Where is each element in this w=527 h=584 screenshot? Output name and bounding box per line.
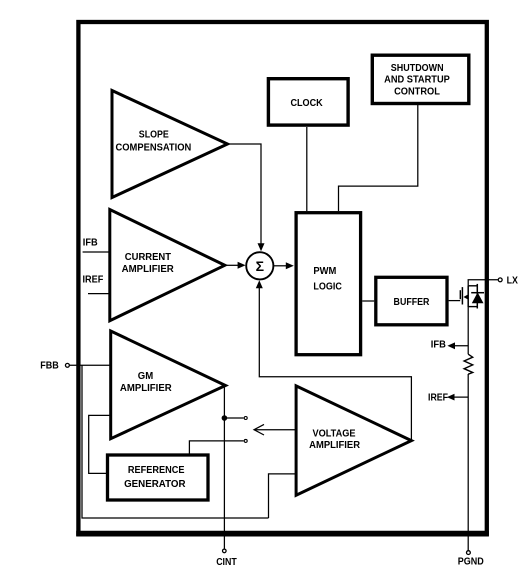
svg-text:FBB: FBB: [40, 361, 59, 372]
wire buffer to MOSFET gate: [449, 300, 461, 302]
wire gm amplifier lower input to reference generator: [89, 415, 111, 473]
wire voltage amplifier output to summer bottom: [259, 288, 411, 441]
svg-text:CURRENT: CURRENT: [125, 252, 172, 263]
svg-text:BUFFER: BUFFER: [394, 297, 430, 308]
switch wiper arrow from voltage amplifier input: [254, 424, 296, 435]
MOSFET Q1 (output switch): [460, 285, 477, 307]
wire gm amplifier output down to CINT: [223, 386, 225, 549]
arrowhead into summer bottom: [256, 280, 263, 288]
wire FBB down along border to bottom rail: [82, 365, 269, 518]
svg-text:CLOCK: CLOCK: [290, 98, 323, 109]
wire current amplifier output to summer: [225, 264, 239, 266]
wire summer to PWM logic: [273, 265, 286, 267]
arrowhead into PWM logic: [286, 262, 294, 269]
CINT terminal: [223, 549, 227, 553]
svg-text:Σ: Σ: [256, 258, 264, 274]
slope compensation amplifier: [112, 91, 228, 198]
wire reference generator to switch contact B: [189, 441, 243, 455]
svg-text:GENERATOR: GENERATOR: [124, 479, 186, 490]
svg-text:PWM: PWM: [313, 266, 336, 277]
svg-text:IFB: IFB: [431, 339, 446, 350]
LX terminal: [498, 278, 502, 282]
svg-text:IREF: IREF: [83, 275, 104, 286]
wire slope compensation output to summer: [228, 144, 262, 244]
FBB terminal: [65, 363, 69, 367]
svg-text:REFERENCE: REFERENCE: [128, 465, 185, 476]
svg-text:IFB: IFB: [83, 238, 98, 249]
shutdown and startup control block: [372, 55, 469, 103]
svg-text:SHUTDOWN: SHUTDOWN: [391, 63, 444, 74]
svg-text:AND STARTUP: AND STARTUP: [384, 75, 450, 86]
svg-text:LOGIC: LOGIC: [313, 282, 342, 293]
wire MOSFET source down to resistor: [467, 307, 469, 354]
outer box (IC boundary): [78, 22, 486, 534]
svg-text:SLOPE: SLOPE: [139, 130, 169, 141]
svg-text:GM: GM: [138, 371, 153, 382]
body diode of MOSFET: [471, 284, 484, 309]
buffer block: [376, 277, 447, 325]
svg-text:VOLTAGE: VOLTAGE: [312, 428, 355, 439]
PGND terminal: [467, 551, 471, 555]
wire bottom rail up to voltage amplifier lower input: [269, 474, 297, 518]
IREF input wire: [88, 293, 109, 295]
current amplifier: [110, 210, 225, 321]
svg-text:CONTROL: CONTROL: [394, 87, 440, 98]
wire MOSFET drain to LX: [468, 280, 498, 286]
svg-text:AMPLIFIER: AMPLIFIER: [309, 440, 360, 451]
reference generator block: [108, 455, 209, 500]
svg-text:CINT: CINT: [216, 557, 237, 568]
wire shutdown control to PWM logic: [339, 105, 418, 211]
arrowhead into summer left: [238, 262, 246, 269]
wire resistor down to PGND: [467, 374, 469, 550]
junction dot on gm output: [222, 415, 228, 421]
svg-text:AMPLIFIER: AMPLIFIER: [122, 264, 175, 275]
PWM logic block: [296, 213, 361, 355]
arrowhead IREF tap: [447, 394, 455, 401]
arrowhead IFB tap: [447, 342, 455, 349]
svg-text:IREF: IREF: [428, 393, 448, 404]
wire clock to PWM logic: [306, 127, 308, 211]
clock block: [268, 79, 348, 125]
switch contact A: [244, 417, 247, 420]
arrowhead into summer top: [258, 243, 265, 251]
IFB sense tap wire: [451, 345, 468, 347]
outer box bottom edge (thicker): [76, 531, 489, 537]
wire FBB to gm amplifier input: [70, 364, 111, 366]
svg-text:COMPENSATION: COMPENSATION: [115, 143, 191, 154]
voltage amplifier: [296, 386, 411, 495]
svg-text:AMPLIFIER: AMPLIFIER: [120, 383, 172, 394]
gm amplifier: [111, 331, 226, 439]
switch contact B: [244, 439, 247, 442]
svg-text:LX: LX: [507, 276, 518, 287]
resistor (current sense): [464, 354, 473, 374]
svg-text:PGND: PGND: [458, 557, 484, 568]
IREF sense tap wire: [451, 396, 469, 398]
wire PWM logic to buffer: [362, 300, 374, 302]
wire junction to switch contact A: [224, 417, 243, 419]
IFB input wire: [83, 251, 110, 253]
summer node (sigma): [246, 252, 273, 279]
